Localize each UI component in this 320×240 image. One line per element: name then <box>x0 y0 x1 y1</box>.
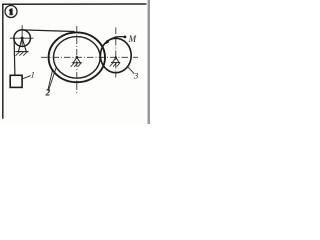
frame border left <box>2 4 4 119</box>
moment M application dot <box>124 36 127 39</box>
wheel 3 pivot base <box>111 62 120 64</box>
moment M curved arrow arc <box>106 37 125 43</box>
scan page-edge gray band <box>148 0 151 124</box>
svg-text:M: M <box>128 34 137 44</box>
svg-text:2: 2 <box>45 87 51 97</box>
wheel 2 pivot hatching <box>71 63 82 67</box>
leader line to label 1 <box>21 76 31 80</box>
wheel 3 pivot left leg <box>113 57 116 62</box>
wheel 2 pivot base <box>72 62 82 64</box>
pulley support left leg <box>18 38 22 51</box>
wheel 2 horizontal dash-dot centerline (shared with wheel 3) <box>41 56 138 58</box>
pulley horizontal centerline <box>10 37 34 39</box>
wheel 3 pivot hub <box>115 56 117 58</box>
wheel 3 vertical dash-dot centerline <box>115 28 117 78</box>
wheel 3 pivot hatching <box>110 63 120 67</box>
wire: rope from pulley top to wheel 2 <box>22 30 74 32</box>
moment M arrowhead <box>105 40 109 45</box>
wheel 3 pivot right leg <box>116 57 119 62</box>
figure number badge circle <box>5 6 17 18</box>
frame border right (fading) <box>145 4 147 102</box>
pulley support hatching <box>16 52 28 56</box>
figure number digit 1 <box>9 9 13 15</box>
pulley support base <box>15 51 28 53</box>
wheel 2 outer rim <box>49 32 105 82</box>
leader line to label 3 <box>127 66 134 73</box>
frame border bottom (partial, fading) <box>2 117 46 119</box>
leader lines to label 2 <box>48 71 53 91</box>
wheel 2 pivot hub <box>76 56 79 59</box>
svg-text:1: 1 <box>31 70 35 80</box>
pulley hub <box>21 37 24 40</box>
frame border top <box>2 3 146 5</box>
pulley vertical centerline <box>21 25 23 46</box>
pulley support right leg <box>22 38 26 51</box>
wheel 2 pivot left leg <box>73 57 76 62</box>
pulley wheel <box>14 30 31 47</box>
wheel 3 rim <box>100 38 131 72</box>
wheel 2 vertical dash-dot centerline <box>76 26 78 94</box>
block (load) 1 <box>10 75 22 87</box>
wheel 2 pivot right leg <box>77 57 81 62</box>
svg-text:3: 3 <box>133 71 138 81</box>
wheel 2 inner rim <box>54 37 101 79</box>
wire: rope from pulley left down to block 1 <box>13 38 16 76</box>
